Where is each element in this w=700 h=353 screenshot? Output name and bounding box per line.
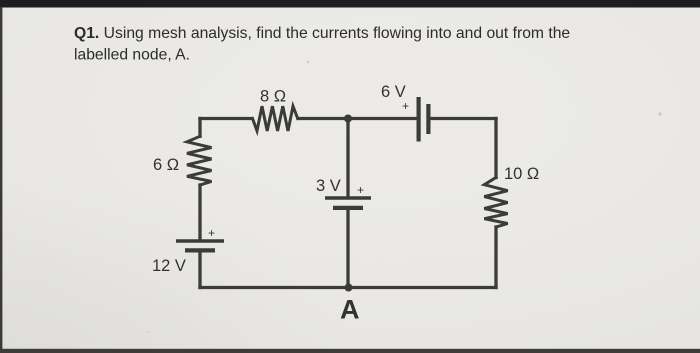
wire top-middle segment — [298, 117, 417, 120]
battery V1 6V plates — [419, 97, 429, 142]
wire left vertical upper — [198, 119, 201, 137]
node A junction dot — [345, 284, 353, 292]
svg-text:Q1. Using mesh analysis, find: Q1. Using mesh analysis, find the curren… — [74, 25, 570, 42]
svg-text:+: + — [208, 226, 215, 240]
svg-text:A: A — [340, 295, 360, 325]
resistor R1 8ohm zigzag — [253, 106, 298, 131]
wire top-right segment — [430, 117, 496, 120]
svg-text:10 Ω: 10 Ω — [504, 165, 539, 183]
wire middle vertical lower — [346, 210, 349, 288]
battery V3 3V plates — [325, 198, 371, 208]
dust speck gray — [307, 61, 309, 63]
svg-text:3 V: 3 V — [316, 177, 341, 195]
top dark bar — [0, 0, 700, 8]
svg-text:labelled node, A.: labelled node, A. — [74, 47, 190, 64]
wire middle vertical upper — [346, 119, 349, 197]
resistor R3 10ohm zigzag — [484, 178, 507, 228]
svg-text:8 Ω: 8 Ω — [260, 88, 286, 106]
svg-text:+: + — [357, 183, 364, 197]
wire below 12V battery — [198, 252, 201, 288]
resistor R2 6ohm zigzag — [187, 136, 212, 185]
wire bottom segment — [200, 286, 496, 289]
dust speck pink — [658, 112, 661, 115]
svg-text:+: + — [402, 99, 409, 113]
wire left vertical lower — [198, 185, 201, 240]
svg-text:6 Ω: 6 Ω — [153, 156, 179, 174]
bottom dark strip — [0, 349, 700, 353]
wire right vertical upper — [494, 119, 497, 178]
wire right vertical lower — [494, 227, 497, 288]
wire top-left segment — [200, 117, 252, 120]
battery V2 12V plates — [176, 241, 224, 251]
dust speck gray 2 — [147, 331, 150, 334]
svg-text:12 V: 12 V — [152, 257, 186, 275]
node junction dot top — [344, 115, 352, 123]
left dark edge — [0, 7, 2, 350]
